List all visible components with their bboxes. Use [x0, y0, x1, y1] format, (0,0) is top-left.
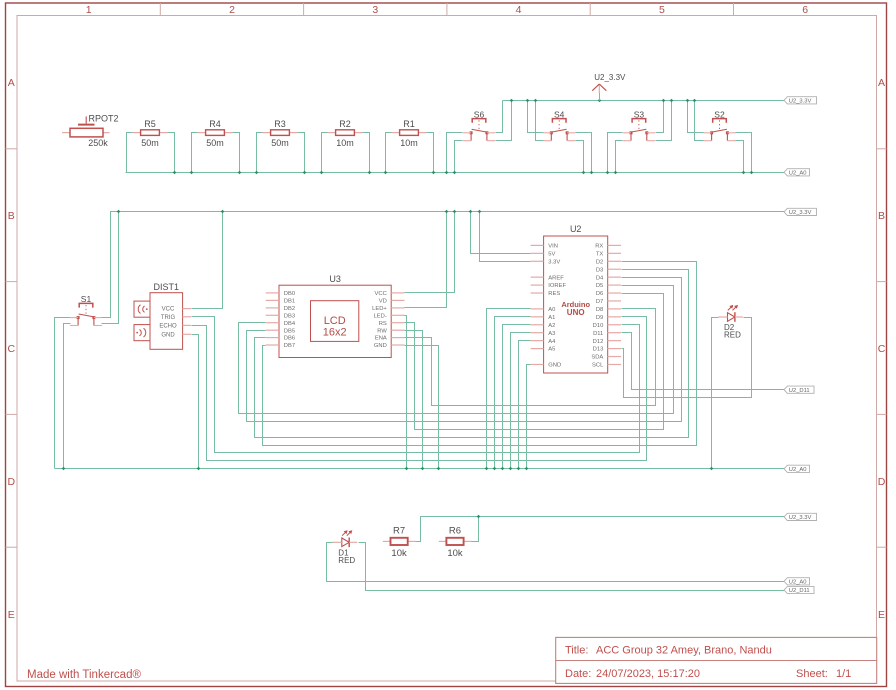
svg-text:U2_A0: U2_A0: [789, 579, 807, 585]
svg-text:DB4: DB4: [284, 321, 296, 327]
svg-text:B: B: [878, 210, 885, 222]
svg-text:Sheet:: Sheet:: [796, 668, 828, 680]
svg-text:R2: R2: [339, 119, 351, 129]
svg-text:1: 1: [86, 4, 92, 16]
svg-text:S3: S3: [634, 109, 645, 119]
svg-text:SDA: SDA: [591, 355, 603, 361]
svg-text:SCL: SCL: [592, 363, 604, 369]
svg-text:LED-: LED-: [374, 313, 387, 319]
svg-text:250k: 250k: [88, 138, 108, 148]
svg-text:U2_A0: U2_A0: [789, 170, 807, 176]
svg-text:U2_3.3V: U2_3.3V: [594, 73, 626, 82]
svg-text:A2: A2: [548, 323, 555, 329]
svg-text:3.3V: 3.3V: [548, 259, 560, 265]
svg-text:Title:: Title:: [565, 645, 588, 657]
svg-text:RPOT2: RPOT2: [89, 113, 119, 123]
svg-text:RX: RX: [595, 244, 603, 250]
svg-text:U2_3.3V: U2_3.3V: [789, 515, 812, 521]
svg-text:5: 5: [659, 4, 665, 16]
svg-text:10m: 10m: [336, 138, 354, 148]
svg-text:VCC: VCC: [375, 291, 387, 297]
svg-text:LCD: LCD: [324, 315, 346, 327]
svg-text:50m: 50m: [206, 138, 224, 148]
svg-text:RES: RES: [548, 291, 560, 297]
svg-text:ENA: ENA: [375, 336, 387, 342]
svg-text:GND: GND: [374, 343, 387, 349]
svg-text:10k: 10k: [391, 548, 407, 559]
svg-text:2: 2: [229, 4, 235, 16]
svg-text:D9: D9: [596, 315, 603, 321]
svg-text:TX: TX: [596, 251, 604, 257]
svg-text:U3: U3: [329, 274, 341, 284]
svg-text:U2_D11: U2_D11: [789, 588, 810, 594]
svg-text:1/1: 1/1: [836, 668, 851, 680]
svg-text:DIST1: DIST1: [154, 282, 180, 292]
svg-text:ACC Group 32 Amey, Brano, Nand: ACC Group 32 Amey, Brano, Nandu: [596, 645, 772, 657]
svg-text:D6: D6: [596, 291, 603, 297]
svg-text:GND: GND: [548, 363, 561, 369]
svg-text:A0: A0: [548, 307, 555, 313]
svg-text:C: C: [878, 343, 886, 355]
svg-text:S6: S6: [474, 109, 485, 119]
svg-text:VCC: VCC: [162, 307, 175, 313]
svg-text:DB1: DB1: [284, 299, 295, 305]
svg-text:R6: R6: [449, 526, 461, 537]
svg-text:S2: S2: [714, 109, 725, 119]
svg-text:D13: D13: [593, 347, 604, 353]
svg-text:16x2: 16x2: [323, 326, 347, 338]
svg-text:D11: D11: [593, 331, 603, 337]
svg-text:10k: 10k: [447, 548, 463, 559]
svg-text:ECHO: ECHO: [159, 324, 177, 330]
svg-text:U2: U2: [570, 224, 582, 234]
svg-text:U2_D11: U2_D11: [789, 388, 810, 394]
svg-text:A1: A1: [548, 315, 555, 321]
svg-text:B: B: [8, 210, 15, 222]
svg-text:50m: 50m: [271, 138, 289, 148]
svg-text:3: 3: [372, 4, 378, 16]
svg-text:RED: RED: [338, 556, 355, 565]
svg-text:D12: D12: [593, 339, 604, 345]
svg-text:LED+: LED+: [372, 306, 387, 312]
svg-text:UNO: UNO: [567, 308, 585, 317]
svg-text:E: E: [8, 609, 15, 621]
svg-text:R5: R5: [144, 119, 156, 129]
svg-text:6: 6: [802, 4, 808, 16]
svg-text:U2_3.3V: U2_3.3V: [789, 98, 812, 104]
svg-text:R4: R4: [209, 119, 221, 129]
svg-text:DB3: DB3: [284, 313, 295, 319]
svg-text:VIN: VIN: [548, 244, 558, 250]
svg-text:E: E: [878, 609, 885, 621]
svg-text:A4: A4: [548, 339, 556, 345]
svg-text:DB7: DB7: [284, 343, 295, 349]
svg-text:D2: D2: [596, 259, 603, 265]
svg-text:R7: R7: [393, 526, 405, 537]
svg-text:D5: D5: [596, 283, 603, 289]
svg-text:24/07/2023, 15:17:20: 24/07/2023, 15:17:20: [596, 668, 700, 680]
svg-text:DB0: DB0: [284, 291, 295, 297]
svg-text:10m: 10m: [400, 138, 418, 148]
svg-text:R3: R3: [274, 119, 286, 129]
svg-text:DB5: DB5: [284, 328, 295, 334]
svg-text:D8: D8: [596, 307, 603, 313]
svg-text:Date:: Date:: [565, 668, 591, 680]
svg-text:TRIG: TRIG: [161, 315, 176, 321]
svg-text:C: C: [8, 343, 16, 355]
svg-text:RS: RS: [379, 321, 387, 327]
svg-text:DB2: DB2: [284, 306, 295, 312]
svg-text:A3: A3: [548, 331, 555, 337]
svg-text:Made with Tinkercad®: Made with Tinkercad®: [27, 669, 141, 681]
svg-text:D: D: [878, 476, 886, 488]
svg-text:D7: D7: [596, 299, 603, 305]
svg-text:U2_3.3V: U2_3.3V: [789, 210, 812, 216]
svg-text:RED: RED: [724, 331, 741, 340]
svg-text:D3: D3: [596, 267, 603, 273]
svg-text:S1: S1: [81, 294, 92, 304]
svg-text:D4: D4: [596, 275, 604, 281]
svg-text:5V: 5V: [548, 251, 555, 257]
svg-text:D10: D10: [593, 323, 604, 329]
svg-text:D: D: [8, 476, 16, 488]
svg-text:A5: A5: [548, 347, 555, 353]
svg-text:U2_A0: U2_A0: [789, 467, 807, 473]
svg-text:VD: VD: [379, 299, 387, 305]
svg-text:IOREF: IOREF: [548, 283, 566, 289]
svg-text:50m: 50m: [141, 138, 159, 148]
svg-text:A: A: [878, 77, 885, 89]
svg-text:GND: GND: [161, 332, 175, 338]
svg-text:R1: R1: [403, 119, 415, 129]
svg-text:RW: RW: [377, 328, 387, 334]
svg-text:DB6: DB6: [284, 336, 295, 342]
svg-text:A: A: [8, 77, 15, 89]
svg-text:AREF: AREF: [548, 275, 564, 281]
svg-text:4: 4: [516, 4, 522, 16]
svg-text:S4: S4: [554, 109, 565, 119]
